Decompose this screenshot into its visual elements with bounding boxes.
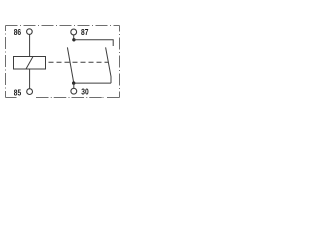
wire top lead 87 — [74, 40, 113, 46]
wire 86 to coil — [29, 35, 31, 57]
relay enclosure border bottom — [6, 97, 120, 99]
svg-text:85: 85 — [14, 88, 22, 98]
junction node 87 — [72, 38, 75, 41]
svg-text:87: 87 — [81, 27, 89, 37]
svg-text:86: 86 — [14, 27, 22, 37]
contact blade left — [67, 47, 73, 83]
svg-text:30: 30 — [81, 87, 89, 97]
relay enclosure border top — [6, 25, 120, 27]
wire junction to 30 — [73, 83, 75, 88]
terminal 85 — [27, 89, 33, 95]
mechanical link dashed — [46, 61, 109, 63]
relay coil K1 — [14, 57, 46, 70]
terminal 86 — [27, 29, 33, 35]
wire bottom lead 30 — [74, 82, 111, 84]
terminal 87 — [71, 29, 77, 35]
wire coil to 85 — [29, 69, 31, 89]
relay enclosure border left — [5, 26, 7, 98]
contact blade right — [106, 47, 111, 83]
relay enclosure border right — [119, 26, 121, 98]
terminal 30 — [71, 88, 77, 94]
wire 87 to junction — [73, 35, 75, 40]
junction node 30 — [72, 81, 75, 84]
coil diagonal mark — [26, 57, 33, 70]
